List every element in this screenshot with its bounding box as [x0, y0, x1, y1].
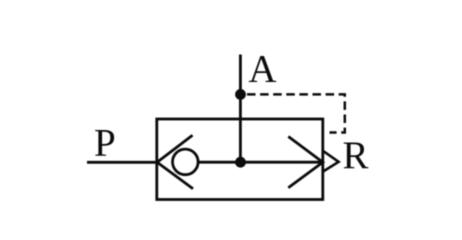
pilot tap junction dot: [235, 89, 246, 100]
check valve poppet circle: [173, 149, 199, 175]
svg-text:P: P: [94, 121, 116, 164]
arrow to R port: [288, 137, 323, 188]
junction dot: [235, 157, 246, 168]
wire internal line to R: [198, 161, 322, 164]
pilot dashed line: [247, 94, 345, 132]
valve body box: [157, 119, 323, 200]
wire P port line: [87, 161, 157, 164]
wire A port vertical line: [239, 55, 242, 163]
R port chevron: [323, 151, 339, 172]
check valve seat chevron: [157, 135, 193, 189]
svg-text:R: R: [343, 134, 369, 177]
svg-text:A: A: [248, 47, 276, 90]
